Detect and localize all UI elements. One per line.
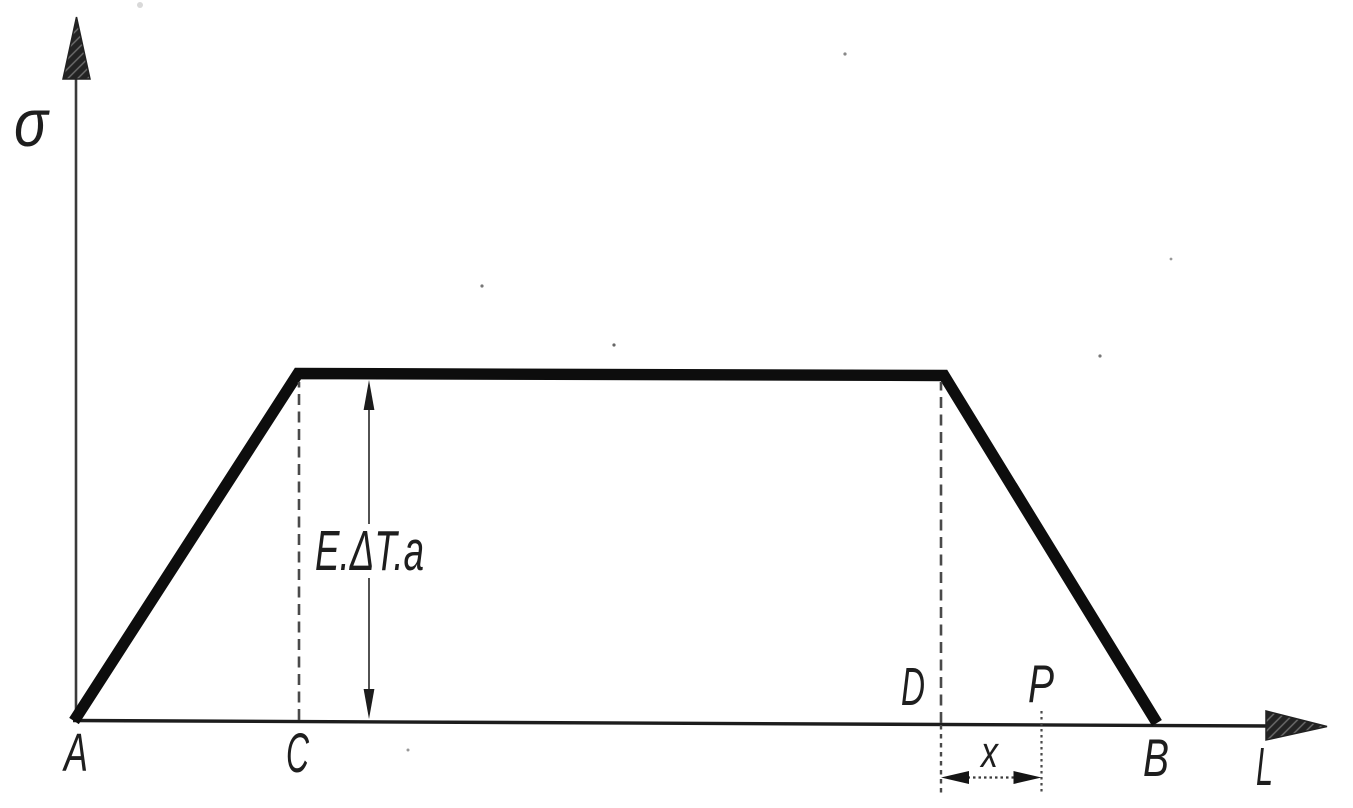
E.dT.a bottom arrowhead (364, 689, 375, 719)
wire: lower segment of dimension line (368, 578, 370, 698)
faint speck top-left (137, 2, 143, 8)
x-axis arrowhead (hatched) (1266, 711, 1327, 740)
E.dT.a dimension line (vertical double arrow, broken at label) (368, 402, 370, 524)
x-axis (L axis) line (73, 721, 1270, 727)
dotted extension of D line below axis (940, 725, 942, 793)
stress curve A-C-D-B (thick trapezoid) (74, 374, 1157, 724)
svg-text:E.ΔT.a: E.ΔT.a (315, 519, 424, 583)
E.dT.a top arrowhead (364, 380, 375, 410)
x dimension right arrowhead (1014, 771, 1042, 784)
dashed vertical line at C (298, 382, 301, 720)
svg-text:σ: σ (14, 86, 50, 161)
y-axis (sigma axis) line (75, 62, 78, 722)
svg-text:L: L (1256, 737, 1273, 797)
svg-text:B: B (1143, 729, 1169, 788)
scan speckles (480, 284, 483, 287)
svg-text:C: C (286, 721, 309, 784)
svg-text:P: P (1028, 655, 1054, 714)
dotted vertical line at P (1040, 711, 1042, 794)
svg-text:x: x (979, 728, 999, 777)
svg-text:D: D (901, 657, 925, 717)
svg-text:A: A (62, 723, 88, 783)
x dimension left arrowhead (941, 771, 969, 784)
x dimension line (horizontal, dotted) (962, 776, 1024, 778)
y-axis arrowhead (hatched) (63, 17, 90, 79)
dashed vertical line at D (940, 382, 943, 723)
